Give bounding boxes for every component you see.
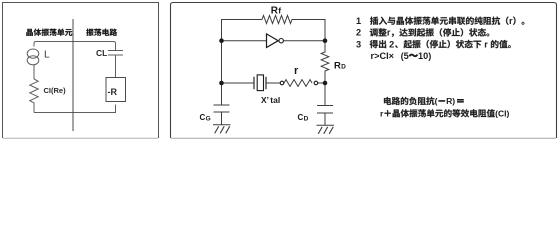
svg-text:10): 10) [418,51,431,61]
svg-text:C: C [298,113,304,122]
svg-text:tal: tal [270,95,280,105]
svg-text:(CI): (CI) [495,109,509,119]
svg-text:G: G [206,116,211,123]
svg-text:R: R [334,60,341,71]
svg-text:r: r [294,65,299,77]
svg-text:C: C [200,113,206,122]
svg-text:CL: CL [96,48,107,58]
svg-text:D: D [304,116,309,123]
svg-text:2: 2 [389,39,394,49]
svg-text:CI(Re): CI(Re) [44,86,67,95]
svg-text:L: L [44,50,50,61]
svg-text:(: ( [435,96,438,106]
svg-text:r>CI×: r>CI× [371,51,395,61]
svg-text:1: 1 [356,16,361,26]
svg-text:2: 2 [356,28,361,38]
svg-text:f: f [278,6,281,16]
svg-text:3: 3 [356,39,361,49]
svg-text:X’: X’ [261,95,269,105]
svg-text:-R: -R [108,87,118,97]
svg-text:R): R) [446,96,455,106]
svg-text:D: D [341,63,346,70]
svg-text:r: r [509,16,513,26]
svg-text:(5: (5 [401,51,409,61]
svg-text:r: r [484,39,488,49]
svg-text:r: r [387,28,391,38]
